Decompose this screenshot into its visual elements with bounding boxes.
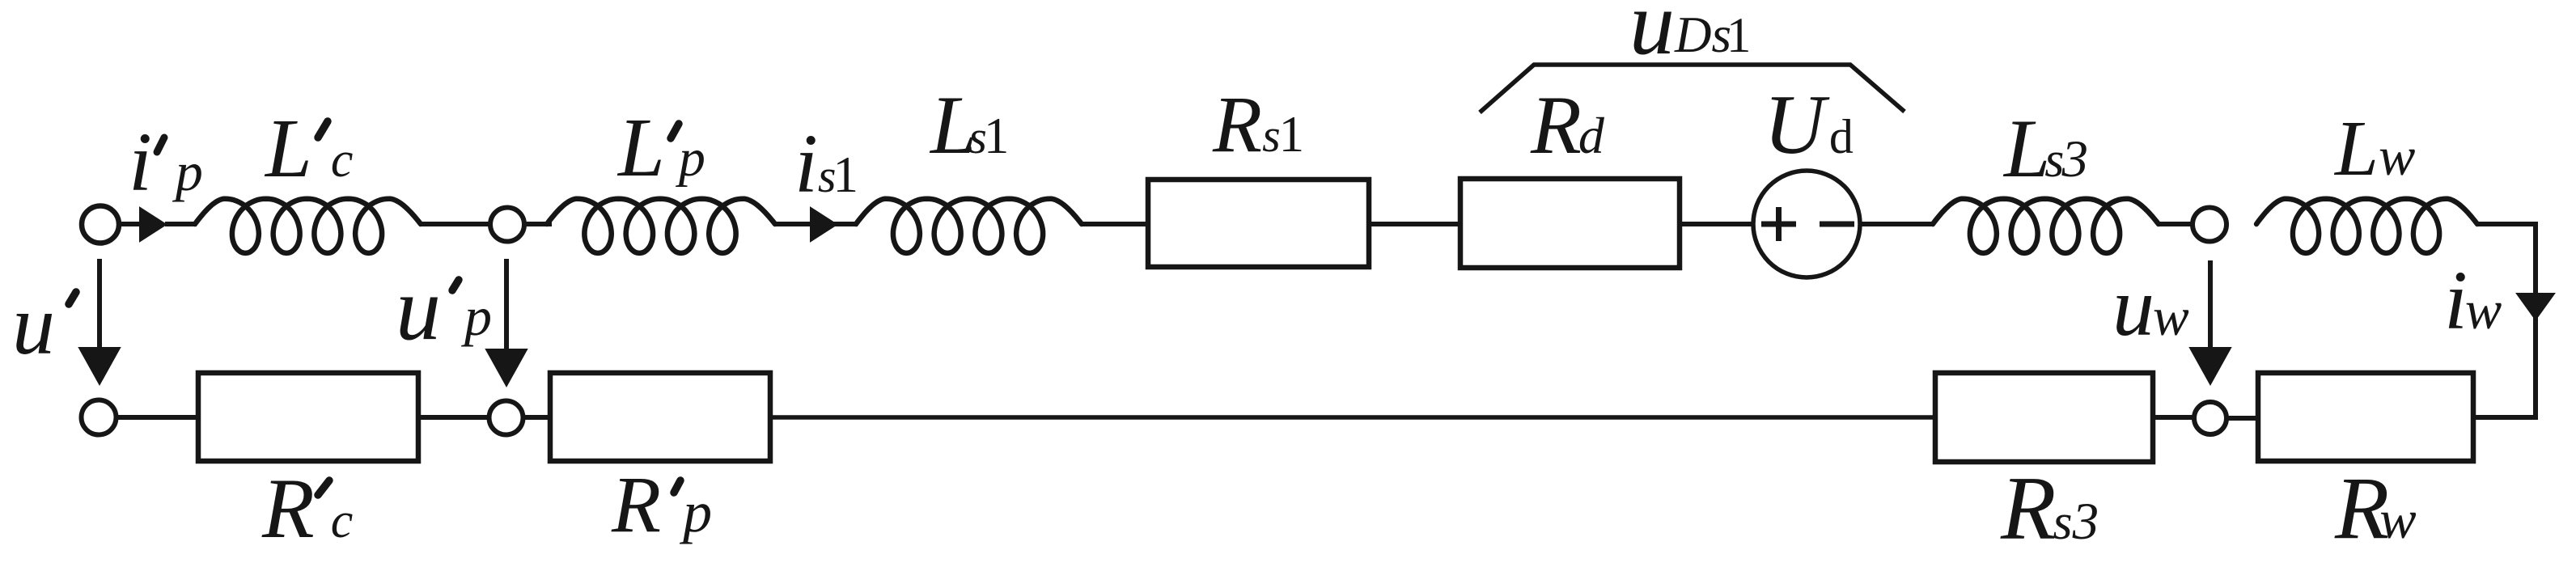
wire	[1680, 222, 1753, 226]
wire	[1082, 222, 1148, 226]
svg-text:is1: is1	[794, 117, 858, 210]
resistor Rs1	[1148, 180, 1369, 267]
arrow u'	[79, 259, 120, 384]
prime of L'c	[318, 121, 328, 138]
wire	[421, 222, 491, 226]
resistor Rs3	[1935, 373, 2153, 462]
svg-text:iw: iw	[2444, 254, 2502, 347]
svg-text:up: up	[396, 259, 492, 359]
inductor Lw	[2256, 199, 2477, 253]
prime of L'p	[671, 124, 679, 138]
source Ud circle	[1753, 171, 1860, 277]
resistor Rd	[1460, 179, 1680, 268]
wire	[2473, 415, 2538, 420]
svg-text:Rs1: Rs1	[1212, 79, 1304, 169]
terminal bottom-left	[82, 400, 117, 435]
svg-text:Rs3: Rs3	[2000, 459, 2099, 559]
inductor Ls1	[856, 199, 1082, 253]
prime of i'p	[157, 138, 164, 152]
svg-text:Ud: Ud	[1764, 77, 1854, 171]
wire	[1860, 222, 1934, 226]
svg-text:Ls1: Ls1	[929, 79, 1009, 171]
source Ud minus	[1820, 222, 1854, 227]
wire	[523, 415, 550, 420]
arrow uw	[2190, 260, 2231, 384]
svg-text:ip: ip	[129, 116, 203, 209]
arrow i'p	[140, 208, 166, 241]
svg-text:uw: uw	[2112, 260, 2189, 353]
wire	[2153, 415, 2194, 420]
resistor R'c	[198, 373, 418, 461]
svg-text:Rp: Rp	[611, 459, 712, 549]
svg-text:Rw: Rw	[2334, 459, 2417, 557]
svg-text:Rc: Rc	[261, 461, 353, 556]
node top-left	[490, 208, 524, 242]
terminal top-left	[82, 206, 119, 243]
arrow is1	[811, 208, 837, 241]
arrow iw	[2517, 294, 2554, 319]
inductor Ls3	[1933, 199, 2159, 253]
source Ud plus	[1761, 207, 1796, 241]
wire	[118, 222, 142, 226]
svg-text:Lp: Lp	[616, 101, 705, 194]
wire	[418, 415, 490, 420]
arrow u'p	[486, 259, 527, 386]
prime of R'c	[318, 480, 329, 495]
svg-text:u: u	[12, 277, 55, 372]
node bottom-right	[2194, 402, 2226, 434]
prime of R'p	[674, 480, 680, 493]
wire	[2159, 222, 2194, 226]
bracket uDs1	[1480, 65, 1904, 112]
svg-text:Lw: Lw	[2333, 105, 2415, 192]
wire	[116, 415, 198, 420]
svg-text:Rd: Rd	[1530, 79, 1605, 171]
wire long bottom	[770, 415, 1935, 420]
wire	[2477, 222, 2538, 226]
node top-right	[2193, 208, 2226, 242]
node bottom-left	[489, 401, 523, 435]
svg-text:uDs1: uDs1	[1629, 0, 1752, 74]
wire	[1369, 222, 1460, 226]
wire	[2226, 416, 2258, 421]
svg-text:Ls3: Ls3	[2002, 103, 2088, 195]
resistor Rw	[2258, 373, 2473, 461]
prime of u'p	[452, 280, 459, 290]
wire	[524, 222, 552, 226]
svg-text:Lc: Lc	[264, 102, 353, 195]
wire	[165, 222, 197, 226]
inductor L'p	[547, 199, 775, 253]
resistor R'p	[550, 373, 770, 461]
prime of u'	[69, 292, 76, 304]
inductor L'c	[195, 199, 421, 253]
wire	[775, 222, 858, 226]
wire right vertical	[2533, 224, 2538, 417]
